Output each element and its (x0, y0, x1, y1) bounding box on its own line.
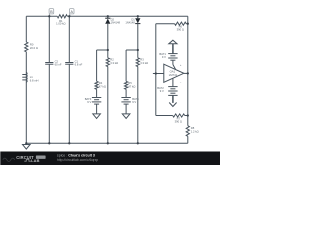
svg-text:390 Ω: 390 Ω (177, 28, 184, 32)
svg-text:47 kΩ: 47 kΩ (99, 84, 106, 88)
svg-text:390 Ω: 390 Ω (175, 120, 182, 124)
svg-text:LAB: LAB (31, 158, 40, 163)
svg-text:spice : Chua’s circuit 3: spice : Chua’s circuit 3 (57, 154, 95, 158)
svg-text:1N4148: 1N4148 (111, 21, 121, 25)
svg-text:http://circuitlab.com/c/6qrxp: http://circuitlab.com/c/6qrxp (57, 158, 98, 162)
svg-text:47 kΩ: 47 kΩ (128, 84, 135, 88)
svg-text:9 V: 9 V (132, 100, 136, 104)
svg-text:9 V: 9 V (162, 55, 166, 59)
svg-text:1N4148: 1N4148 (125, 21, 135, 25)
svg-text:9 V: 9 V (160, 89, 164, 93)
svg-text:20.0 Ω: 20.0 Ω (30, 46, 38, 50)
svg-text:1.2 kΩ: 1.2 kΩ (191, 129, 199, 133)
svg-text:60 nF: 60 nF (55, 62, 62, 66)
svg-text:1.00 kΩ: 1.00 kΩ (56, 22, 65, 26)
svg-text:3.3 kΩ: 3.3 kΩ (140, 61, 148, 65)
svg-text:3.3 kΩ: 3.3 kΩ (110, 61, 118, 65)
svg-text:9 V: 9 V (87, 100, 91, 104)
svg-text:6.8 nF: 6.8 nF (75, 62, 83, 66)
svg-text:6.8 mH: 6.8 mH (30, 78, 39, 82)
svg-text:LM741: LM741 (169, 73, 178, 77)
